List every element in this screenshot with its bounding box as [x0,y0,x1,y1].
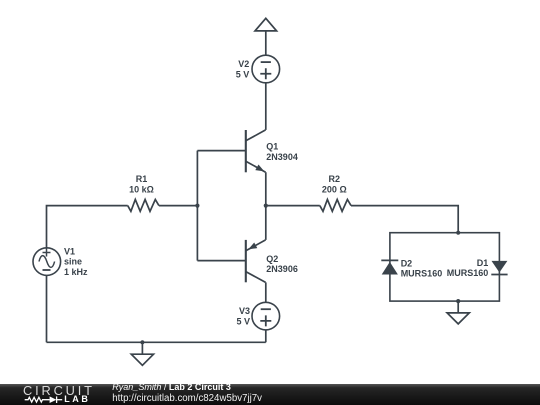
CircuitLab logo [23,386,95,396]
footer text [112,382,532,405]
wire emitter junction to R2 [266,205,320,207]
node emitter junction [264,204,268,208]
svg-text:2N3904: 2N3904 [266,152,298,162]
svg-text:MURS160: MURS160 [447,268,489,278]
wire V3 to bottom rail [265,330,267,342]
wire R1 to base rail [159,205,198,207]
diode D2 [381,260,398,274]
wire V2 to Q1 collector [265,83,267,130]
svg-text:D1: D1 [477,258,489,268]
svg-text:10 kΩ: 10 kΩ [129,185,154,195]
node box top junction [456,231,460,235]
svg-text:Q2: Q2 [266,254,278,264]
transistor Q1 [197,130,265,172]
wire bottom rail [47,341,266,343]
svg-text:D2: D2 [401,259,413,269]
svg-text:5 V: 5 V [236,316,250,326]
power flag VCC arrow [255,18,277,55]
ground left [131,342,153,365]
svg-text:200 Ω: 200 Ω [322,185,347,195]
svg-text:2N3906: 2N3906 [266,264,298,274]
footer bar [0,384,540,405]
svg-text:sine: sine [64,257,82,267]
wire base rail [196,151,198,261]
wire V1 to R1 [47,206,128,248]
ground right [447,301,469,324]
diode D1 [491,261,507,275]
wire Q1 emitter to Q2 emitter [265,172,267,240]
wire Q2 collector to V3 [265,282,267,302]
voltage source V1 [33,248,61,276]
svg-text:R1: R1 [136,174,148,184]
svg-text:1 kHz: 1 kHz [64,267,88,277]
resistor R1 [128,200,159,212]
svg-text:Q1: Q1 [266,142,278,152]
svg-text:MURS160: MURS160 [401,268,443,278]
resistor R2 [320,200,351,212]
wire R2 to diode box [351,206,458,233]
wire diode box rectangle [390,233,500,301]
svg-text:R2: R2 [329,174,341,184]
svg-text:V1: V1 [64,246,75,256]
wire V1 bottom [46,275,48,342]
voltage source V2 [252,55,280,83]
node box bottom junction [456,299,460,303]
transistor Q2 [197,240,265,283]
svg-text:5 V: 5 V [236,69,250,79]
node base junction [195,204,199,208]
svg-text:V3: V3 [239,306,250,316]
node ground junction [140,340,144,344]
voltage source V3 [252,302,280,330]
svg-text:V2: V2 [238,59,249,69]
